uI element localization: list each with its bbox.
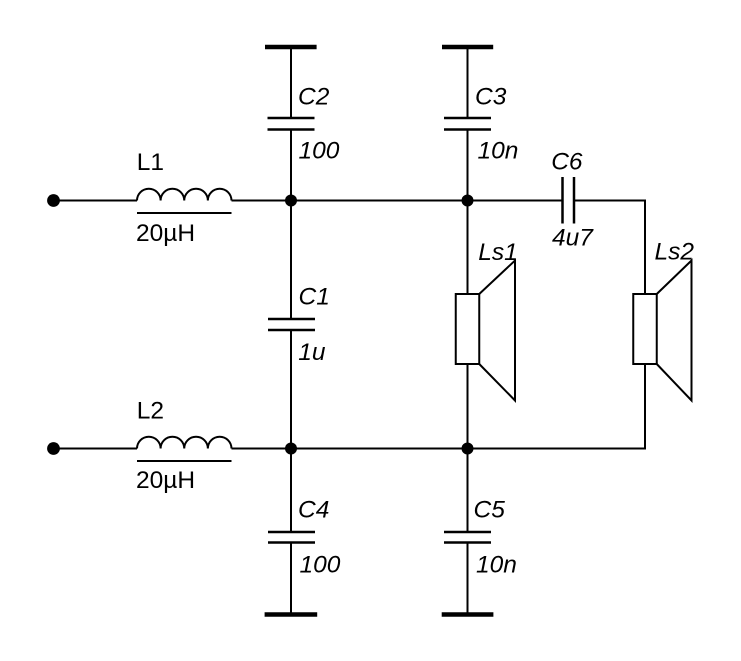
svg-text:20µH: 20µH — [136, 220, 195, 247]
svg-text:C4: C4 — [298, 497, 329, 524]
capacitor C4 — [268, 532, 315, 543]
wire C1 to node C — [290, 331, 292, 449]
svg-text:Ls1: Ls1 — [478, 239, 518, 266]
wire C3 to node B — [467, 131, 469, 201]
svg-text:1u: 1u — [298, 339, 326, 366]
svg-text:4u7: 4u7 — [552, 225, 594, 252]
svg-text:L2: L2 — [137, 398, 164, 425]
wire C5 to bottom bar — [467, 544, 469, 615]
capacitor C3 — [444, 118, 491, 130]
node C — [285, 443, 297, 455]
wire bar to C2 — [290, 47, 292, 117]
wire node A to node B — [291, 200, 468, 202]
terminal input top — [47, 194, 60, 207]
rail bar bottom left — [265, 612, 318, 617]
node B — [462, 195, 474, 207]
node A — [285, 195, 297, 207]
wire node B to C6 — [468, 200, 562, 202]
wire node D to C5 — [467, 449, 469, 532]
wire node C to C4 — [290, 449, 292, 532]
wire input top to L1 — [54, 200, 138, 202]
wire L1 to node A — [232, 200, 292, 202]
wire input bottom to L2 — [54, 448, 138, 450]
svg-text:20µH: 20µH — [136, 467, 195, 494]
speaker Ls1 — [456, 261, 515, 401]
svg-text:C6: C6 — [551, 149, 583, 176]
svg-text:100: 100 — [299, 138, 340, 165]
node D — [462, 443, 474, 455]
svg-text:C3: C3 — [475, 84, 507, 111]
wire C4 to bottom bar — [290, 544, 292, 615]
wire bar to C3 — [467, 47, 469, 117]
wire bottom corner to node D — [468, 448, 646, 450]
wire Ls2 to bottom corner — [644, 364, 646, 450]
svg-text:10n: 10n — [478, 138, 519, 165]
svg-text:L1: L1 — [137, 149, 164, 176]
rail bar top left — [265, 45, 317, 50]
inductor L2 — [137, 437, 232, 461]
capacitor C2 — [268, 118, 315, 130]
wire node A to C1 — [290, 201, 292, 319]
rail bar top right — [442, 45, 493, 50]
wire corner down to Ls2 — [644, 200, 646, 295]
wire node C to node D — [291, 448, 468, 450]
wire L2 to node C — [232, 448, 292, 450]
wire node B to Ls1 — [467, 201, 469, 295]
capacitor C1 — [268, 319, 315, 330]
wire C6 to corner — [575, 200, 645, 202]
speaker Ls2 — [633, 261, 691, 401]
wire C2 to node A — [290, 131, 292, 201]
rail bar bottom right — [442, 612, 494, 617]
svg-text:Ls2: Ls2 — [655, 239, 695, 266]
capacitor C5 — [444, 532, 491, 543]
wire Ls1 to node D — [467, 364, 469, 449]
svg-text:C2: C2 — [298, 84, 330, 111]
terminal input bottom — [47, 442, 60, 455]
inductor L1 — [137, 189, 232, 213]
svg-text:10n: 10n — [476, 552, 517, 579]
svg-text:100: 100 — [300, 552, 341, 579]
capacitor C6 — [563, 177, 575, 224]
svg-text:C5: C5 — [474, 497, 506, 524]
svg-text:C1: C1 — [299, 284, 330, 311]
